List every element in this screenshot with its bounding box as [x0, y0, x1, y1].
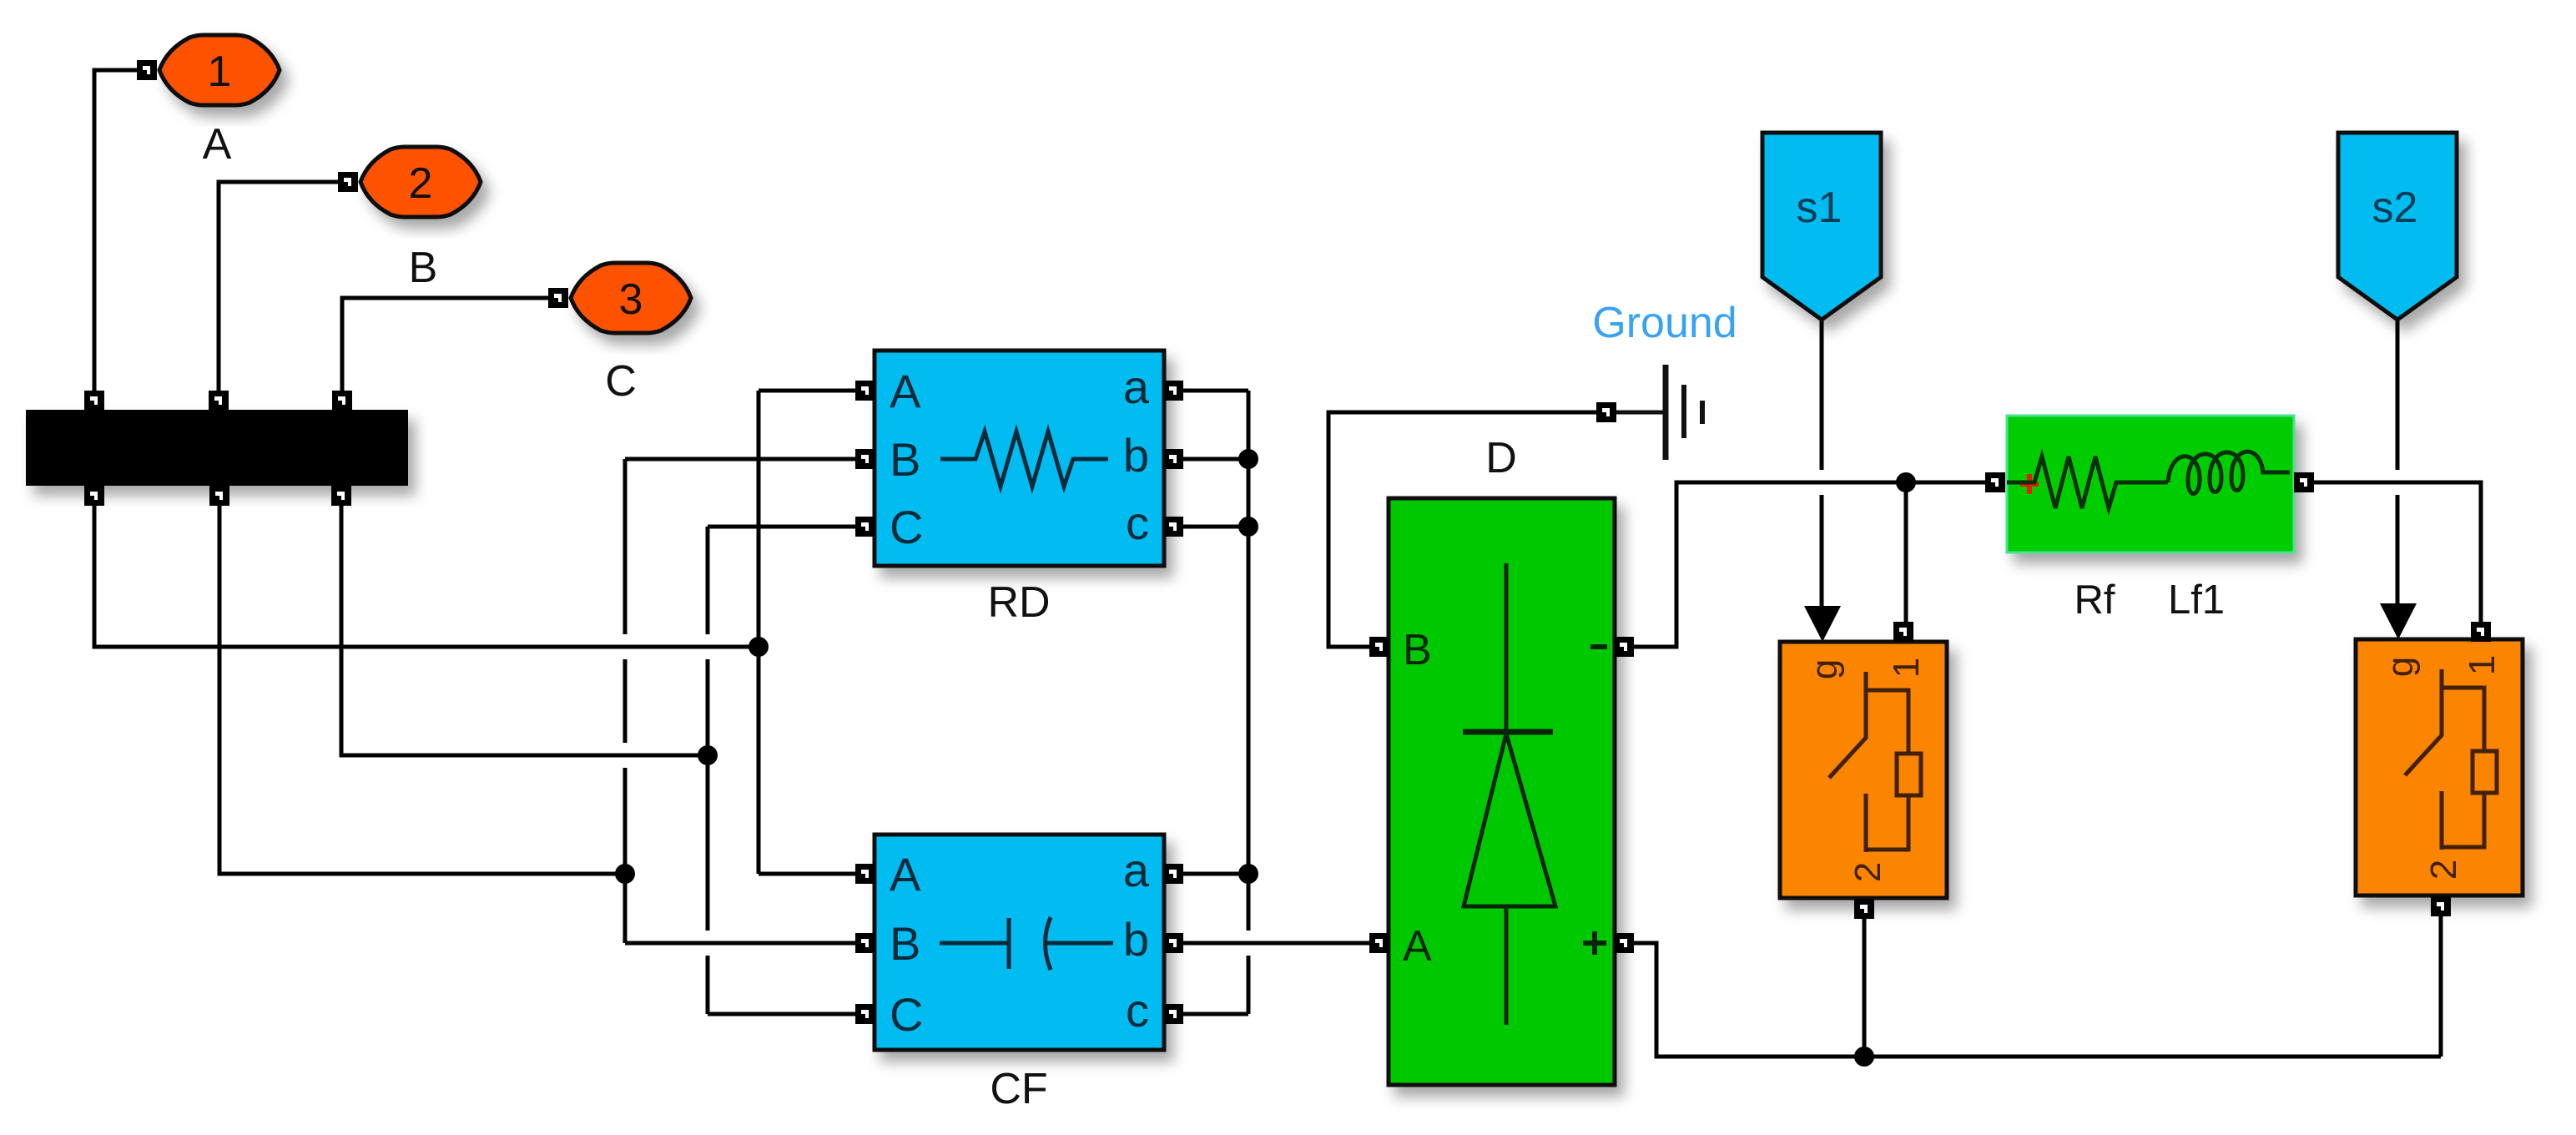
svg-text:1: 1	[2462, 655, 2503, 675]
hexagon port tag 1 (phase A)	[159, 35, 280, 105]
wire CF port c to star	[1183, 1012, 1248, 1016]
RD input port B	[855, 449, 875, 469]
junction node net B	[615, 864, 635, 884]
plus sign of D	[1583, 931, 1606, 955]
resistor symbol inside RD	[940, 431, 1108, 487]
svg-text:RD: RD	[987, 578, 1050, 627]
svg-text:A: A	[1403, 922, 1432, 971]
svg-text:1: 1	[208, 48, 232, 96]
svg-text:1: 1	[1886, 658, 1927, 678]
junction node Rf input	[1896, 472, 1916, 492]
wire Rf output to breaker2 port 1	[2314, 482, 2481, 622]
Rf output port	[2294, 472, 2314, 492]
wire net C to RD port C	[708, 525, 855, 529]
tag s2	[2338, 133, 2457, 320]
wire CF port b to D port A	[1183, 941, 1369, 946]
svg-text:b: b	[1123, 429, 1149, 482]
wire RD port a to star	[1183, 389, 1248, 393]
svg-text:B: B	[409, 244, 438, 292]
svg-text:b: b	[1123, 913, 1149, 966]
svg-text:B: B	[1403, 626, 1432, 674]
svg-text:2: 2	[409, 159, 433, 208]
bus bottom port C	[331, 486, 351, 506]
wire hexagon1 to bus phase A	[94, 70, 137, 391]
wire net A vertical (RD A / CF A feeder)	[757, 391, 761, 874]
svg-text:A: A	[890, 365, 921, 417]
port of hexagon 1	[137, 60, 157, 80]
wire net C vertical (RD C / CF C feeder)	[706, 527, 710, 1014]
wire breaker2 port 2 to bottom rail	[2439, 916, 2443, 1057]
CF input port A	[855, 864, 875, 884]
bus bottom port A	[84, 486, 104, 506]
svg-text:c: c	[1126, 984, 1149, 1037]
junction node star CF a	[1238, 864, 1258, 884]
ground port	[1596, 402, 1616, 422]
wire ground to D port B	[1328, 412, 1596, 647]
red plus polarity mark	[2020, 474, 2039, 494]
svg-text:g: g	[1804, 659, 1845, 679]
wire hop gap	[2393, 470, 2402, 495]
wire net A to CF port A	[759, 872, 855, 876]
svg-text:A: A	[890, 848, 921, 900]
svg-text:2: 2	[1848, 862, 1888, 882]
block Rf Lf1 (series RL branch)	[2007, 416, 2294, 552]
svg-text:C: C	[890, 988, 923, 1041]
svg-text:3: 3	[619, 275, 643, 324]
wire node to breaker1 port 1	[1904, 482, 1908, 622]
svg-text:C: C	[890, 501, 923, 553]
svg-text:a: a	[1123, 361, 1150, 413]
wire hexagon3 to bus phase C	[342, 298, 548, 391]
RD output port a	[1163, 381, 1183, 401]
svg-text:Rf: Rf	[2074, 578, 2115, 623]
wire hop gap	[703, 931, 712, 956]
wire D plus to bottom rail	[1634, 943, 2441, 1057]
wire bus C to net C	[341, 506, 708, 755]
bus bar block	[26, 410, 408, 486]
RD input port A	[855, 381, 875, 401]
svg-text:s2: s2	[2372, 184, 2418, 232]
wire breaker1 port 2 to bottom rail	[1863, 919, 1867, 1057]
junction node star b	[1238, 449, 1258, 469]
breaker2 switch symbol	[2405, 669, 2442, 775]
Rf input port	[1985, 472, 2005, 492]
junction node star c	[1238, 517, 1258, 537]
wire hop gap	[703, 634, 712, 659]
svg-text:A: A	[203, 120, 232, 169]
wire CF port a to star	[1183, 872, 1248, 876]
inductor symbol Lf1	[2168, 451, 2290, 493]
svg-text:s1: s1	[1797, 184, 1843, 232]
D port minus	[1614, 637, 1634, 657]
breaker1 switch symbol	[1829, 672, 1866, 778]
block breaker 2	[2356, 639, 2523, 895]
wire net B to RD port B	[625, 457, 855, 462]
junction node net C	[698, 745, 718, 765]
wire D minus to Rf input	[1634, 482, 1985, 647]
hexagon port tag 3 (phase C)	[571, 263, 691, 333]
breaker1 port 1	[1893, 622, 1913, 642]
port of hexagon 2	[338, 172, 358, 192]
wire hop gap	[621, 743, 629, 768]
junction node net A	[749, 637, 769, 657]
breaker1 port 2	[1854, 899, 1874, 919]
wire s1 tag to breaker1 gate	[1820, 320, 1824, 608]
CF output port b	[1163, 933, 1183, 953]
arrow into breaker1 gate	[1804, 606, 1841, 642]
tag s1	[1762, 133, 1881, 320]
wire bus A to net A	[94, 506, 759, 647]
svg-text:g: g	[2380, 657, 2421, 677]
minus sign of D	[1590, 644, 1607, 649]
bus top port B	[209, 391, 229, 411]
svg-text:Lf1: Lf1	[2168, 578, 2225, 623]
block D (diode)	[1389, 498, 1615, 1085]
svg-text:a: a	[1123, 844, 1150, 896]
D port plus	[1614, 933, 1634, 953]
block breaker 1	[1780, 642, 1947, 898]
svg-text:2: 2	[2423, 860, 2464, 880]
wire hexagon2 to bus phase B	[219, 182, 338, 391]
bus top port A	[84, 391, 104, 411]
svg-text:C: C	[605, 357, 637, 406]
RD output port b	[1163, 449, 1183, 469]
CF output port a	[1163, 864, 1183, 884]
svg-text:CF: CF	[990, 1065, 1047, 1113]
wire RD port b to star	[1183, 457, 1248, 462]
D port B	[1369, 637, 1389, 657]
ground symbol	[1616, 365, 1702, 460]
wire net B vertical (RD B / CF B feeder)	[623, 459, 628, 943]
wire RD port c to star	[1183, 525, 1248, 529]
wire net C to CF port C	[708, 1012, 855, 1016]
wire hop gap	[1817, 470, 1826, 495]
RD input port C	[855, 517, 875, 537]
wire bus B to net B	[219, 506, 625, 874]
port of hexagon 3	[548, 288, 568, 308]
hexagon port tag 2 (phase B)	[360, 147, 481, 217]
wire net B to CF port B	[625, 941, 855, 946]
junction node bottom rail	[1854, 1047, 1874, 1067]
breaker2 port 1	[2471, 622, 2491, 642]
svg-text:B: B	[890, 433, 920, 486]
diode symbol inside D	[1505, 563, 1509, 732]
svg-text:B: B	[890, 917, 920, 970]
CF input port C	[855, 1004, 875, 1024]
capacitor symbol inside CF	[940, 941, 1007, 946]
bus top port C	[332, 391, 352, 411]
bus bottom port B	[209, 486, 229, 506]
CF input port B	[855, 933, 875, 953]
wire hop gap	[621, 634, 629, 659]
arrow into breaker2 gate	[2380, 603, 2417, 639]
RD output port c	[1163, 517, 1183, 537]
wire s2 tag to breaker2 gate	[2396, 320, 2400, 605]
svg-text:D: D	[1485, 434, 1517, 482]
CF output port c	[1163, 1004, 1183, 1024]
svg-text:Ground: Ground	[1592, 299, 1737, 347]
wire output star vertical right of RD/CF	[1247, 391, 1251, 1014]
wire net A to RD port A	[759, 389, 855, 393]
resistor symbol Rf	[2007, 457, 2168, 508]
D port A	[1369, 933, 1389, 953]
block RD (three-phase series resistor)	[875, 351, 1164, 566]
wire hop gap	[1244, 931, 1253, 956]
breaker2 port 2	[2431, 896, 2451, 916]
block CF (three-phase capacitor)	[875, 835, 1164, 1050]
svg-text:c: c	[1126, 497, 1149, 549]
